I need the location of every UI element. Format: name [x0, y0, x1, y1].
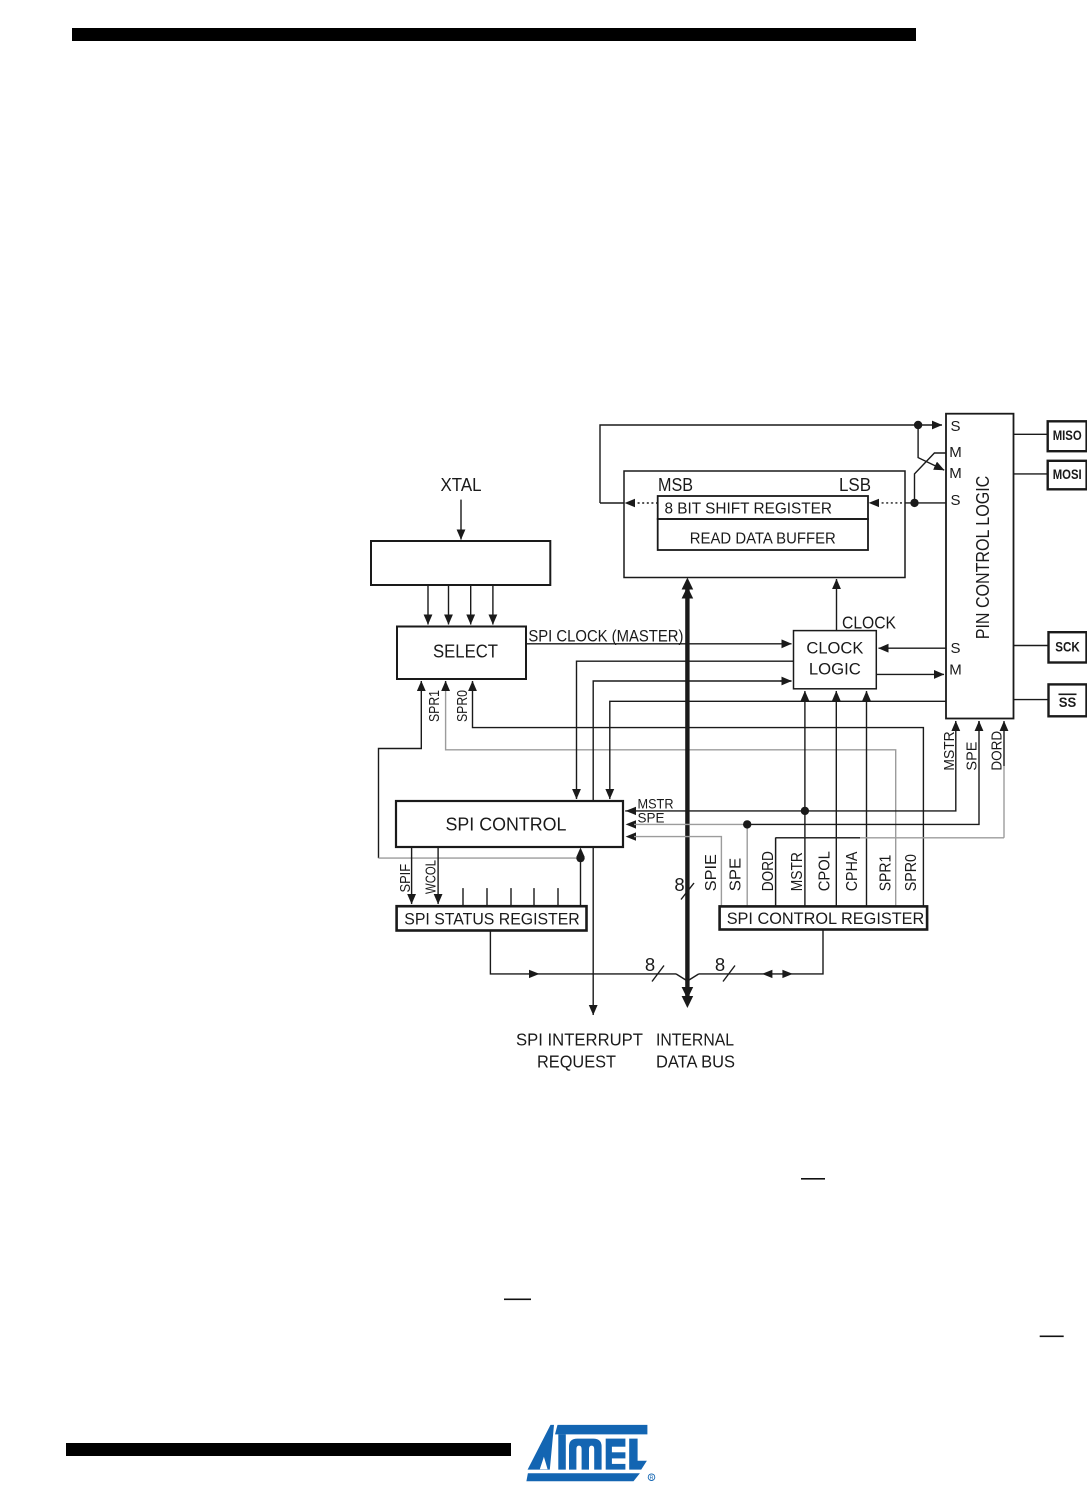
svg-text:SPI INTERRUPT: SPI INTERRUPT [516, 1030, 643, 1050]
svg-text:MSTR: MSTR [789, 852, 806, 891]
svg-text:8 BIT SHIFT REGISTER: 8 BIT SHIFT REGISTER [665, 501, 833, 518]
svg-text:CPHA: CPHA [844, 851, 861, 891]
svg-text:MOSI: MOSI [1053, 467, 1082, 482]
svg-text:M: M [949, 444, 962, 461]
svg-text:S: S [950, 492, 960, 509]
svg-text:LOGIC: LOGIC [809, 661, 861, 679]
svg-text:S: S [950, 640, 960, 657]
svg-text:MSB: MSB [658, 475, 693, 495]
svg-text:MISO: MISO [1053, 428, 1082, 443]
svg-text:SPR1: SPR1 [878, 855, 895, 892]
svg-text:CLOCK: CLOCK [806, 640, 863, 658]
svg-text:MSTR: MSTR [638, 797, 674, 812]
svg-text:SPI STATUS REGISTER: SPI STATUS REGISTER [404, 910, 580, 929]
svg-text:S: S [950, 418, 960, 435]
svg-text:8: 8 [715, 954, 725, 975]
svg-text:CLOCK: CLOCK [842, 613, 896, 633]
svg-text:SELECT: SELECT [433, 642, 498, 662]
svg-text:LSB: LSB [839, 475, 871, 495]
svg-text:8: 8 [645, 954, 655, 975]
svg-text:CPOL: CPOL [816, 851, 833, 892]
svg-text:M: M [949, 465, 962, 482]
svg-text:DORD: DORD [989, 731, 1006, 771]
svg-text:SPI CONTROL REGISTER: SPI CONTROL REGISTER [727, 909, 925, 928]
svg-text:MSTR: MSTR [941, 731, 958, 770]
svg-text:SS: SS [1059, 695, 1077, 710]
svg-text:INTERNAL: INTERNAL [656, 1030, 734, 1050]
svg-text:SCK: SCK [1055, 640, 1080, 655]
svg-text:WCOL: WCOL [422, 860, 439, 894]
svg-text:XTAL: XTAL [441, 474, 482, 495]
svg-text:R: R [650, 1476, 654, 1482]
svg-text:DORD: DORD [760, 851, 777, 891]
svg-text:SPR0: SPR0 [454, 690, 471, 722]
svg-text:READ DATA BUFFER: READ DATA BUFFER [690, 531, 836, 548]
svg-text:SPE: SPE [963, 742, 980, 771]
svg-text:PIN CONTROL LOGIC: PIN CONTROL LOGIC [973, 476, 993, 640]
svg-text:REQUEST: REQUEST [537, 1052, 616, 1072]
svg-text:SPI CLOCK (MASTER): SPI CLOCK (MASTER) [528, 628, 683, 646]
svg-text:M: M [949, 662, 962, 679]
svg-text:SPR0: SPR0 [903, 854, 920, 892]
svg-text:8: 8 [674, 874, 684, 895]
svg-text:SPIE: SPIE [703, 854, 720, 891]
svg-text:SPIF: SPIF [397, 864, 414, 893]
svg-text:SPI CONTROL: SPI CONTROL [446, 815, 567, 835]
svg-text:DATA BUS: DATA BUS [656, 1052, 735, 1072]
svg-text:SPE: SPE [638, 811, 665, 826]
svg-text:SPE: SPE [728, 858, 745, 892]
svg-text:SPR1: SPR1 [426, 690, 443, 722]
